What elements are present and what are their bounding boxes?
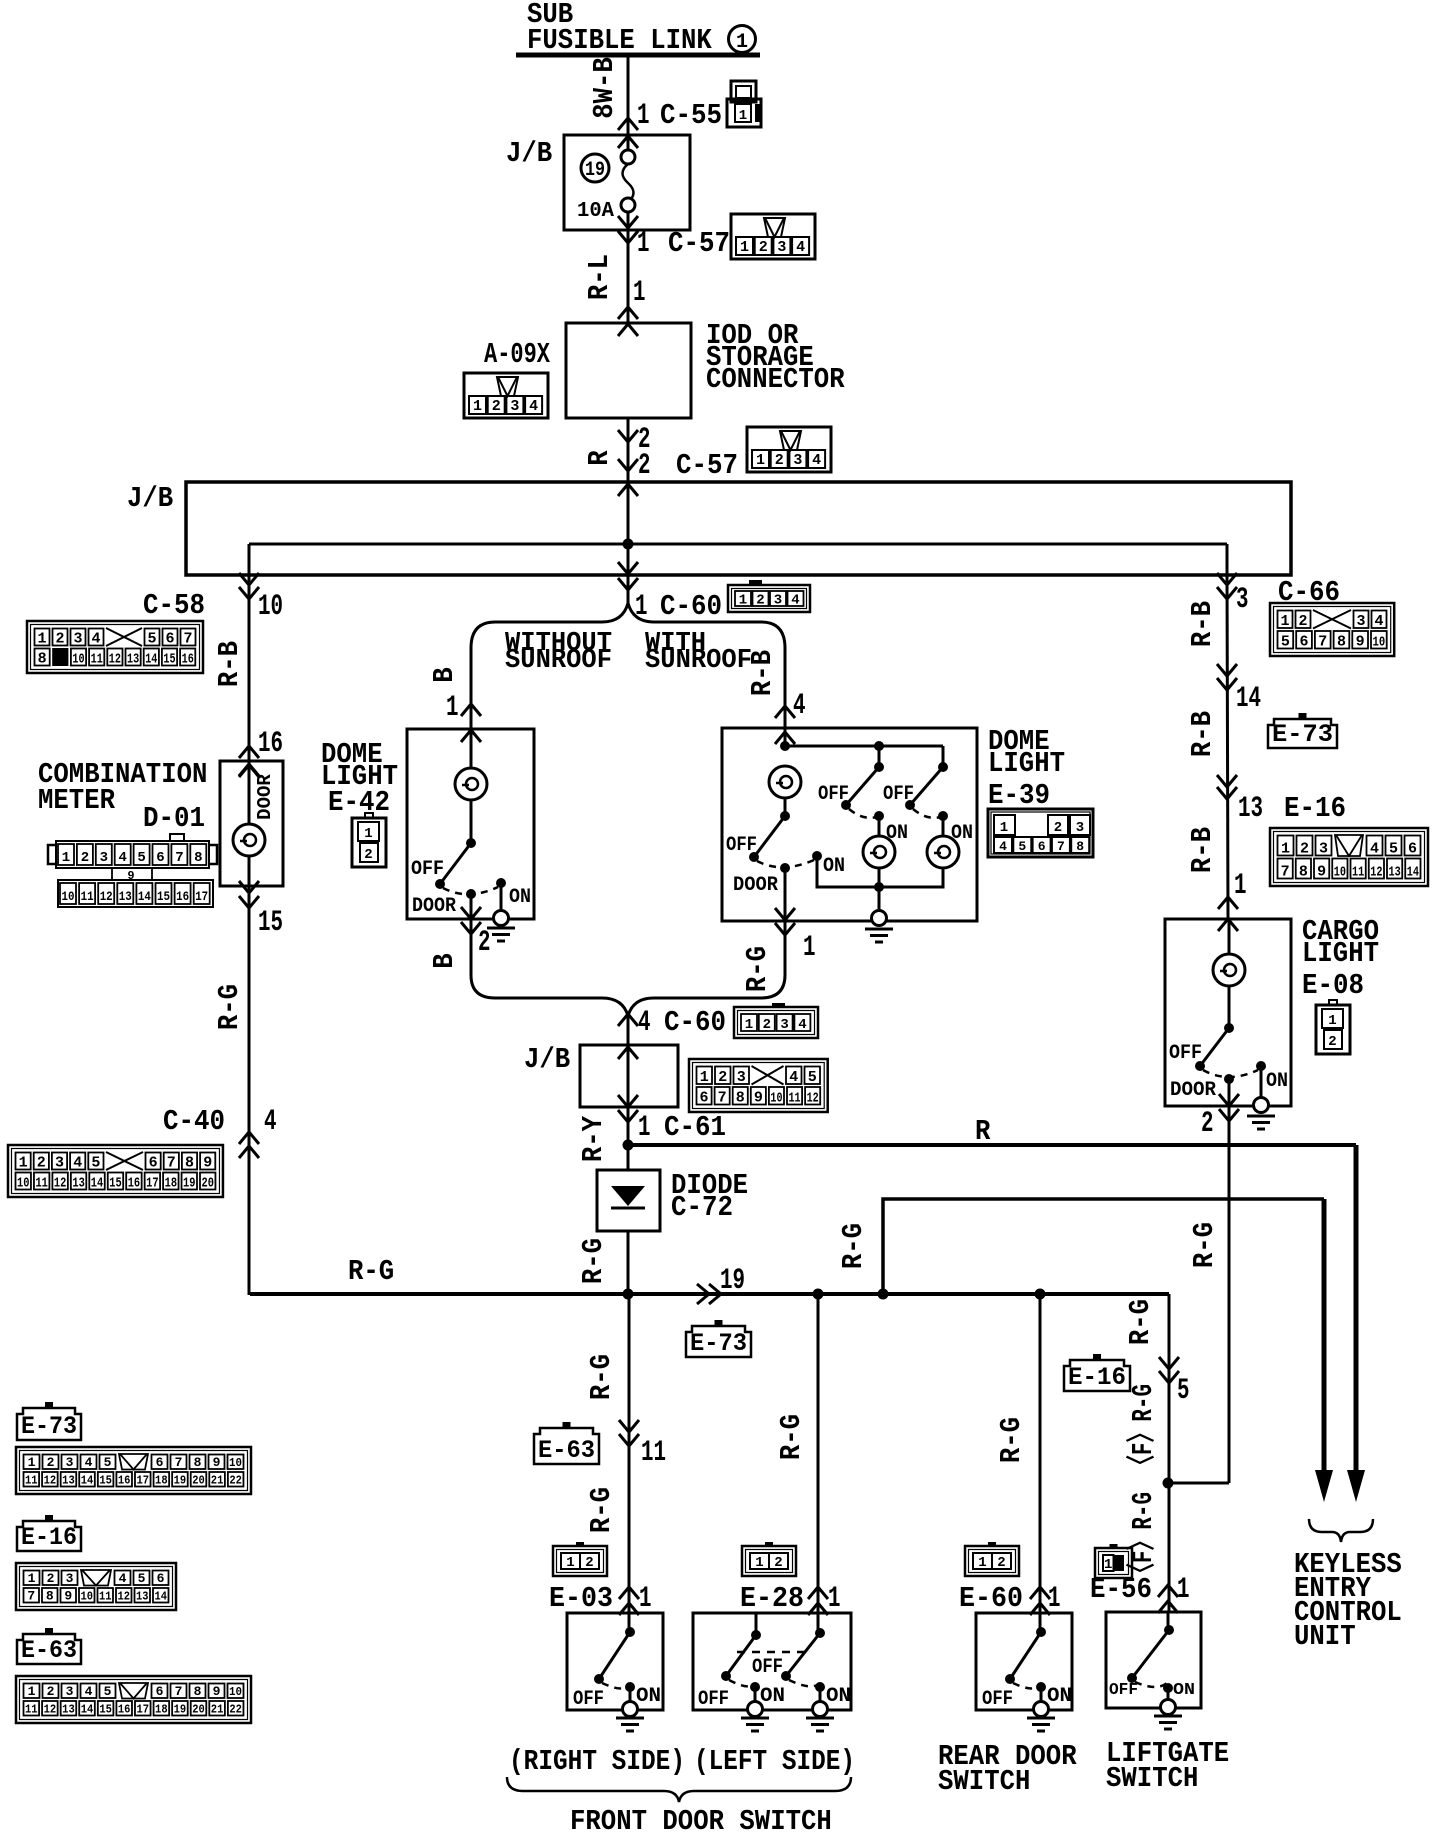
svg-text:1: 1 <box>637 99 650 133</box>
svg-text:E-63: E-63 <box>538 1436 595 1465</box>
svg-text:4: 4 <box>812 452 821 469</box>
svg-text:OFF: OFF <box>573 1688 604 1711</box>
svg-text:16: 16 <box>176 889 189 904</box>
svg-text:3: 3 <box>1076 820 1084 836</box>
svg-text:7: 7 <box>175 850 183 866</box>
svg-text:OFF: OFF <box>726 834 757 857</box>
svg-text:16: 16 <box>128 1176 140 1192</box>
svg-text:4: 4 <box>638 1006 651 1040</box>
svg-text:R-B: R-B <box>1186 601 1219 647</box>
svg-text:12: 12 <box>1370 865 1382 881</box>
svg-text:11: 11 <box>641 1436 666 1470</box>
svg-text:8: 8 <box>38 651 47 668</box>
svg-text:R: R <box>583 450 616 466</box>
svg-text:1: 1 <box>364 826 372 842</box>
svg-text:4: 4 <box>85 1684 93 1699</box>
svg-text:1: 1 <box>639 1582 652 1616</box>
svg-text:(RIGHT SIDE): (RIGHT SIDE) <box>509 1745 685 1778</box>
svg-text:1: 1 <box>700 1069 709 1086</box>
svg-text:17: 17 <box>136 1474 149 1488</box>
svg-text:9: 9 <box>213 1684 221 1699</box>
svg-text:FRONT DOOR SWITCH: FRONT DOOR SWITCH <box>570 1805 832 1836</box>
svg-text:21: 21 <box>211 1474 224 1488</box>
svg-text:18: 18 <box>165 1176 177 1192</box>
svg-text:E-16: E-16 <box>1284 792 1346 825</box>
svg-text:2: 2 <box>492 398 501 415</box>
svg-text:2: 2 <box>756 593 764 609</box>
svg-text:C-60: C-60 <box>664 1006 726 1039</box>
svg-text:4: 4 <box>1370 841 1379 858</box>
svg-text:5: 5 <box>104 1684 112 1699</box>
svg-text:J/B: J/B <box>506 137 552 170</box>
svg-text:15: 15 <box>163 652 175 668</box>
svg-text:13: 13 <box>136 1590 149 1604</box>
svg-text:17: 17 <box>146 1176 158 1192</box>
svg-text:2: 2 <box>47 1455 55 1470</box>
svg-text:9: 9 <box>203 1155 212 1172</box>
svg-text:10: 10 <box>770 1091 782 1107</box>
svg-text:DOOR: DOOR <box>733 874 778 897</box>
svg-text:2: 2 <box>759 239 768 256</box>
svg-text:1: 1 <box>755 1555 763 1571</box>
svg-text:4: 4 <box>91 631 100 648</box>
svg-text:2: 2 <box>763 1017 771 1033</box>
svg-text:R-L: R-L <box>583 254 616 300</box>
svg-text:2: 2 <box>55 631 64 648</box>
svg-text:2: 2 <box>638 449 651 483</box>
svg-text:5: 5 <box>91 1155 100 1172</box>
svg-text:13: 13 <box>62 1703 75 1717</box>
svg-text:R: R <box>975 1115 991 1148</box>
svg-text:D-01: D-01 <box>143 802 205 835</box>
svg-text:E-08: E-08 <box>1302 969 1364 1002</box>
svg-text:4: 4 <box>118 850 126 866</box>
svg-text:2: 2 <box>478 926 491 960</box>
svg-text:1: 1 <box>1280 613 1289 630</box>
svg-text:4: 4 <box>73 1155 82 1172</box>
svg-text:9: 9 <box>1317 864 1326 881</box>
svg-text:5: 5 <box>147 631 156 648</box>
svg-text:9: 9 <box>754 1090 763 1107</box>
svg-text:ON: ON <box>1173 1681 1195 1700</box>
svg-text:R-G: R-G <box>995 1417 1028 1463</box>
svg-text:R-Y: R-Y <box>577 1115 610 1162</box>
svg-text:11: 11 <box>25 1474 38 1488</box>
svg-text:12: 12 <box>118 1590 131 1604</box>
svg-text:11: 11 <box>789 1091 801 1107</box>
svg-text:4: 4 <box>85 1455 93 1470</box>
svg-text:8: 8 <box>194 1455 202 1470</box>
svg-text:SUNROOF: SUNROOF <box>645 646 752 676</box>
svg-text:19: 19 <box>174 1703 187 1717</box>
svg-text:OFF: OFF <box>883 783 914 806</box>
svg-text:2: 2 <box>1201 1107 1214 1141</box>
svg-text:R-B: R-B <box>213 641 246 687</box>
svg-text:3: 3 <box>780 1017 788 1033</box>
svg-text:E-39: E-39 <box>988 779 1050 812</box>
svg-text:1: 1 <box>739 108 747 124</box>
svg-text:13: 13 <box>127 652 139 668</box>
svg-text:C-57: C-57 <box>676 449 738 482</box>
svg-text:18: 18 <box>155 1703 168 1717</box>
svg-text:R-G: R-G <box>348 1255 394 1288</box>
svg-text:13: 13 <box>72 1176 84 1192</box>
svg-text:OFF: OFF <box>752 1656 783 1679</box>
svg-text:2: 2 <box>997 1555 1005 1571</box>
svg-text:SWITCH: SWITCH <box>938 1765 1030 1798</box>
svg-text:12: 12 <box>54 1176 66 1192</box>
svg-text:2: 2 <box>1054 820 1062 836</box>
svg-text:J/B: J/B <box>127 482 173 515</box>
svg-text:E-73: E-73 <box>690 1329 747 1358</box>
svg-text:6: 6 <box>700 1090 709 1107</box>
svg-text:E-16: E-16 <box>1068 1363 1126 1392</box>
svg-text:SWITCH: SWITCH <box>1106 1762 1198 1795</box>
svg-text:E-56: E-56 <box>1090 1573 1152 1606</box>
svg-text:18: 18 <box>155 1474 168 1488</box>
svg-text:19: 19 <box>585 159 605 182</box>
svg-text:8W-B: 8W-B <box>588 57 621 119</box>
svg-text:5: 5 <box>1177 1374 1190 1408</box>
svg-text:R-G: R-G <box>1188 1222 1221 1268</box>
svg-text:E-03: E-03 <box>549 1582 613 1615</box>
svg-text:E-73: E-73 <box>21 1412 77 1441</box>
svg-text:3: 3 <box>66 1684 74 1699</box>
svg-text:2: 2 <box>775 452 784 469</box>
svg-text:17: 17 <box>195 889 208 904</box>
svg-text:J/B: J/B <box>524 1043 570 1076</box>
svg-text:R-G: R-G <box>1124 1299 1157 1345</box>
svg-text:OFF: OFF <box>1169 1042 1202 1065</box>
svg-text:19: 19 <box>174 1474 187 1488</box>
svg-text:2: 2 <box>1298 613 1307 630</box>
svg-text:6: 6 <box>165 631 174 648</box>
svg-text:1: 1 <box>1104 1557 1112 1573</box>
svg-text:1: 1 <box>1177 1573 1190 1607</box>
svg-text:6: 6 <box>1408 841 1417 858</box>
svg-text:2: 2 <box>364 847 372 863</box>
svg-text:13: 13 <box>1389 865 1401 881</box>
svg-text:1: 1 <box>19 1155 28 1172</box>
svg-text:6: 6 <box>156 1455 164 1470</box>
svg-text:DOOR: DOOR <box>412 895 456 918</box>
svg-text:14: 14 <box>81 1703 94 1717</box>
svg-text:10: 10 <box>62 889 75 904</box>
svg-text:LIGHT: LIGHT <box>1302 937 1379 970</box>
svg-text:3: 3 <box>66 1571 74 1586</box>
svg-text:10A: 10A <box>577 200 614 223</box>
svg-text:20: 20 <box>202 1176 214 1192</box>
svg-text:2: 2 <box>81 850 89 866</box>
svg-text:5: 5 <box>808 1069 817 1086</box>
svg-text:4: 4 <box>796 239 805 256</box>
svg-text:ON: ON <box>823 855 845 878</box>
svg-text:C-55: C-55 <box>660 99 722 132</box>
svg-text:15: 15 <box>157 889 170 904</box>
svg-text:6: 6 <box>149 1155 158 1172</box>
svg-text:21: 21 <box>211 1703 224 1717</box>
svg-text:C-60: C-60 <box>660 590 722 623</box>
svg-text:2: 2 <box>37 1155 46 1172</box>
svg-text:5: 5 <box>138 1571 146 1586</box>
svg-text:6: 6 <box>156 850 164 866</box>
svg-text:1: 1 <box>978 1555 986 1571</box>
svg-text:14: 14 <box>91 1176 103 1192</box>
svg-text:R-G: R-G <box>585 1487 618 1533</box>
svg-text:SUNROOF: SUNROOF <box>505 646 612 676</box>
svg-text:OFF: OFF <box>698 1688 729 1711</box>
svg-text:E-63: E-63 <box>21 1636 77 1665</box>
svg-text:E-42: E-42 <box>328 786 390 819</box>
svg-text:6: 6 <box>1038 839 1046 854</box>
svg-text:2: 2 <box>1328 1034 1336 1050</box>
svg-text:16: 16 <box>258 727 283 761</box>
svg-text:20: 20 <box>192 1703 205 1717</box>
svg-text:10: 10 <box>258 590 283 624</box>
svg-text:1: 1 <box>446 691 459 725</box>
svg-text:E-60: E-60 <box>959 1582 1023 1615</box>
svg-text:1: 1 <box>28 1571 36 1586</box>
svg-text:19: 19 <box>720 1264 745 1298</box>
svg-text:1: 1 <box>637 227 650 261</box>
svg-text:R-G: R-G <box>837 1223 870 1269</box>
svg-text:C-57: C-57 <box>668 227 730 260</box>
svg-text:13: 13 <box>1238 792 1263 826</box>
svg-text:14: 14 <box>1236 682 1261 716</box>
svg-text:7: 7 <box>175 1684 183 1699</box>
svg-text:12: 12 <box>44 1703 57 1717</box>
svg-text:〈F〉R-G: 〈F〉R-G <box>1125 1492 1160 1584</box>
svg-text:E-28: E-28 <box>740 1582 804 1615</box>
svg-text:19: 19 <box>183 1176 195 1192</box>
svg-text:3: 3 <box>73 631 82 648</box>
svg-text:14: 14 <box>1407 865 1419 881</box>
svg-text:15: 15 <box>109 1176 121 1192</box>
svg-text:11: 11 <box>25 1703 38 1717</box>
svg-text:14: 14 <box>81 1474 94 1488</box>
svg-text:11: 11 <box>81 889 94 904</box>
svg-text:R-G: R-G <box>585 1354 618 1400</box>
svg-text:4: 4 <box>119 1571 127 1586</box>
svg-text:10: 10 <box>72 652 84 668</box>
svg-text:OFF: OFF <box>411 858 444 881</box>
svg-text:DOOR: DOOR <box>1170 1079 1216 1102</box>
svg-text:5: 5 <box>137 850 145 866</box>
svg-text:3: 3 <box>793 452 802 469</box>
svg-text:22: 22 <box>229 1474 242 1488</box>
svg-text:10: 10 <box>229 1685 242 1699</box>
svg-text:4: 4 <box>264 1105 277 1139</box>
svg-text:7: 7 <box>1281 864 1290 881</box>
svg-text:C-61: C-61 <box>664 1111 726 1144</box>
svg-text:ON: ON <box>760 1685 785 1708</box>
svg-text:4: 4 <box>789 1069 798 1086</box>
svg-text:7: 7 <box>167 1155 176 1172</box>
svg-text:ON: ON <box>636 1685 661 1708</box>
svg-text:R-G: R-G <box>775 1414 808 1460</box>
svg-text:1: 1 <box>1234 869 1247 903</box>
svg-text:ON: ON <box>826 1685 851 1708</box>
svg-text:1: 1 <box>566 1555 574 1571</box>
svg-text:8: 8 <box>194 1684 202 1699</box>
svg-text:7: 7 <box>175 1455 183 1470</box>
svg-text:8: 8 <box>46 1589 54 1604</box>
svg-text:8: 8 <box>194 850 202 866</box>
svg-text:3: 3 <box>66 1455 74 1470</box>
svg-text:14: 14 <box>145 652 157 668</box>
svg-text:3: 3 <box>1356 613 1365 630</box>
svg-text:10: 10 <box>1334 865 1346 881</box>
svg-text:R-B: R-B <box>1186 827 1219 873</box>
svg-text:7: 7 <box>1057 839 1065 854</box>
svg-text:1: 1 <box>1000 820 1008 836</box>
svg-text:8: 8 <box>1076 839 1084 854</box>
svg-text:R-G: R-G <box>577 1238 610 1284</box>
svg-text:11: 11 <box>99 1590 112 1604</box>
svg-text:8: 8 <box>736 1090 745 1107</box>
svg-text:1: 1 <box>37 631 46 648</box>
svg-text:2: 2 <box>585 1555 593 1571</box>
svg-text:7: 7 <box>718 1090 727 1107</box>
svg-text:11: 11 <box>35 1176 47 1192</box>
svg-text:1: 1 <box>828 1582 841 1616</box>
svg-text:3: 3 <box>1319 841 1328 858</box>
svg-text:14: 14 <box>138 889 151 904</box>
svg-text:7: 7 <box>27 1589 35 1604</box>
svg-text:2: 2 <box>47 1684 55 1699</box>
svg-text:R-B: R-B <box>746 650 779 696</box>
svg-text:12: 12 <box>109 652 121 668</box>
svg-text:16: 16 <box>182 652 194 668</box>
svg-text:1: 1 <box>638 1111 651 1145</box>
svg-text:10: 10 <box>17 1176 29 1192</box>
svg-text:C-72: C-72 <box>671 1191 733 1224</box>
svg-text:3: 3 <box>777 239 786 256</box>
svg-text:1: 1 <box>1281 841 1290 858</box>
svg-text:METER: METER <box>38 784 116 817</box>
svg-text:12: 12 <box>44 1474 57 1488</box>
svg-text:3: 3 <box>774 593 782 609</box>
svg-text:4: 4 <box>999 839 1007 854</box>
svg-text:R-B: R-B <box>1186 711 1219 757</box>
svg-text:UNIT: UNIT <box>1294 1620 1356 1653</box>
svg-text:4: 4 <box>791 593 799 609</box>
svg-text:10: 10 <box>1373 635 1386 651</box>
svg-text:1: 1 <box>62 850 70 866</box>
svg-text:22: 22 <box>229 1703 242 1717</box>
svg-text:8: 8 <box>1299 864 1308 881</box>
svg-text:3: 3 <box>510 398 519 415</box>
svg-text:1: 1 <box>1328 1013 1336 1029</box>
svg-text:2: 2 <box>774 1555 782 1571</box>
svg-text:OFF: OFF <box>1109 1681 1138 1700</box>
svg-text:3: 3 <box>1236 583 1249 617</box>
svg-text:1: 1 <box>736 31 748 54</box>
svg-text:6: 6 <box>156 1684 164 1699</box>
svg-text:R-G: R-G <box>741 946 774 992</box>
svg-text:17: 17 <box>136 1703 149 1717</box>
svg-text:1: 1 <box>745 1017 753 1033</box>
svg-text:5: 5 <box>1281 634 1290 651</box>
svg-text:15: 15 <box>99 1703 112 1717</box>
svg-text:11: 11 <box>1352 865 1364 881</box>
svg-text:E-16: E-16 <box>21 1523 77 1552</box>
svg-text:CONNECTOR: CONNECTOR <box>706 363 845 396</box>
svg-text:5: 5 <box>1018 839 1026 854</box>
svg-text:4: 4 <box>1374 613 1383 630</box>
svg-text:FUSIBLE LINK: FUSIBLE LINK <box>527 24 712 57</box>
svg-text:3: 3 <box>737 1069 746 1086</box>
svg-text:R-G: R-G <box>213 984 246 1030</box>
svg-text:5: 5 <box>104 1455 112 1470</box>
svg-text:16: 16 <box>118 1703 131 1717</box>
svg-text:1: 1 <box>756 452 765 469</box>
svg-text:OFF: OFF <box>982 1688 1013 1711</box>
svg-text:14: 14 <box>155 1590 168 1604</box>
svg-text:7: 7 <box>1318 634 1327 651</box>
svg-text:10: 10 <box>81 1590 94 1604</box>
svg-text:1: 1 <box>740 239 749 256</box>
svg-text:7: 7 <box>183 631 192 648</box>
svg-text:1: 1 <box>473 398 482 415</box>
svg-text:13: 13 <box>62 1474 75 1488</box>
svg-text:C-58: C-58 <box>143 589 205 622</box>
svg-text:B: B <box>428 953 461 968</box>
svg-text:C-40: C-40 <box>163 1105 225 1138</box>
svg-text:8: 8 <box>185 1155 194 1172</box>
svg-text:1: 1 <box>28 1455 36 1470</box>
svg-text:1: 1 <box>633 276 646 310</box>
svg-text:9: 9 <box>1356 634 1365 651</box>
svg-text:ON: ON <box>1266 1070 1288 1093</box>
svg-text:OFF: OFF <box>818 783 849 806</box>
svg-text:1: 1 <box>28 1684 36 1699</box>
svg-text:10: 10 <box>229 1456 242 1470</box>
svg-text:20: 20 <box>192 1474 205 1488</box>
svg-text:3: 3 <box>100 850 108 866</box>
svg-text:(LEFT SIDE): (LEFT SIDE) <box>694 1745 855 1778</box>
svg-text:4: 4 <box>529 398 538 415</box>
svg-text:1: 1 <box>803 931 816 965</box>
svg-text:DOOR: DOOR <box>254 774 276 820</box>
svg-text:3: 3 <box>55 1155 64 1172</box>
svg-text:6: 6 <box>157 1571 165 1586</box>
svg-text:5: 5 <box>1389 841 1398 858</box>
svg-text:〈F〉R-G: 〈F〉R-G <box>1125 1384 1160 1476</box>
svg-text:2: 2 <box>1300 841 1309 858</box>
svg-text:15: 15 <box>258 906 283 940</box>
svg-text:15: 15 <box>99 1474 112 1488</box>
svg-text:A-09X: A-09X <box>484 338 550 371</box>
svg-text:8: 8 <box>1337 634 1346 651</box>
svg-text:9: 9 <box>213 1455 221 1470</box>
svg-text:11: 11 <box>91 652 103 668</box>
svg-text:12: 12 <box>807 1091 819 1107</box>
svg-text:2: 2 <box>47 1571 55 1586</box>
svg-text:6: 6 <box>1300 634 1309 651</box>
svg-text:LIGHT: LIGHT <box>988 747 1065 780</box>
svg-text:B: B <box>428 667 461 682</box>
svg-text:9: 9 <box>64 1589 72 1604</box>
svg-text:12: 12 <box>100 889 113 904</box>
svg-text:ON: ON <box>1047 1685 1072 1708</box>
svg-text:13: 13 <box>119 889 132 904</box>
svg-text:ON: ON <box>509 886 531 909</box>
svg-text:1: 1 <box>739 593 747 609</box>
svg-text:2: 2 <box>718 1069 727 1086</box>
svg-text:16: 16 <box>118 1474 131 1488</box>
svg-text:E-73: E-73 <box>1272 720 1333 749</box>
